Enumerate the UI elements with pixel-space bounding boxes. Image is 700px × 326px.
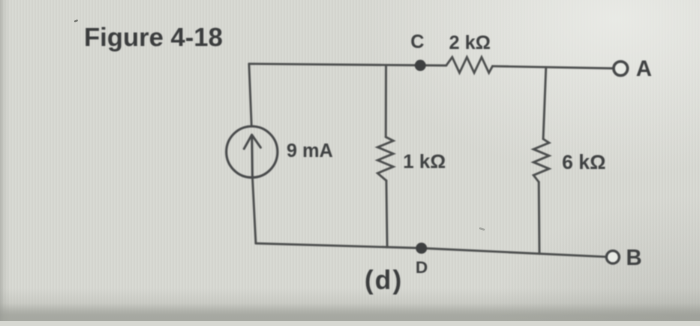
current source I1 (9 mA, arrow up) [226, 126, 277, 177]
resistor R 2 kΩ (horizontal zigzag) [446, 57, 492, 73]
node label C [411, 32, 425, 54]
subfigure caption (d) [365, 265, 404, 296]
node D (junction dot) [416, 243, 427, 254]
wire: left branch lower (current source down to bottom wire) [253, 179, 256, 244]
wire: left branch upper (top corner down to current source) [249, 64, 252, 125]
resistor R 6 kΩ (vertical zigzag) [534, 139, 550, 182]
value label 1 kΩ [403, 151, 446, 174]
wire: middle branch upper (top wire down to 1k resistor) [385, 65, 387, 137]
value label 2 kΩ [449, 33, 491, 55]
wire: middle branch lower (1k resistor down to bottom wire) [385, 181, 388, 248]
node C (junction dot) [415, 60, 426, 71]
terminal B (open circle) [606, 251, 619, 264]
terminal A (open circle) [614, 62, 628, 76]
value label 6 kΩ [562, 152, 606, 175]
wire: bottom horizontal (left corner through node D to terminal B) [256, 243, 606, 256]
figure caption: Figure 4-18 [84, 22, 223, 53]
node label D [416, 258, 428, 278]
resistor R 1 kΩ (vertical zigzag) [378, 137, 394, 181]
wire: top horizontal (left corner to node C to 2k resistor) [249, 64, 446, 66]
speck artifact mid-right [479, 227, 485, 231]
node label A [636, 56, 652, 82]
node label B [626, 245, 642, 271]
value label 9 mA [287, 141, 333, 163]
speck artifact top-left [74, 19, 78, 22]
wire: top right (2k resistor to terminal A) [493, 66, 614, 68]
wire: right branch upper (top wire down to 6k resistor) [543, 67, 546, 139]
wire: right branch lower (6k resistor down to bottom wire) [538, 182, 541, 254]
